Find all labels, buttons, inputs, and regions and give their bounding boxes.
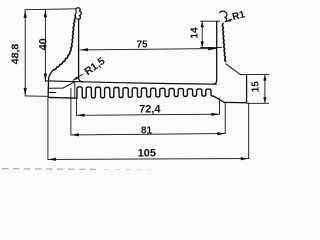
right wall top curl [220,11,227,21]
left wall foot outer curve [48,70,53,93]
dim 48,8 top arrow [24,10,27,18]
dim 105 right arrow [241,157,249,160]
dim 81 left arrow [71,133,79,136]
dim 14 top extension line [201,20,217,22]
dim 72,4 left extension line [76,98,78,115]
dim 105 left arrow [48,158,56,161]
dim 14 top arrow [201,21,204,27]
dim 48,8 line [24,10,26,96]
left wall upper outer face [74,9,77,16]
radius R1 leader arrow [226,19,232,22]
svg-text:48,8: 48,8 [9,44,21,65]
dim 72,4 right arrow [212,113,220,116]
radius R1 leader [226,20,232,22]
dim 75 line [80,49,216,50]
dim 15 bottom extension line [247,102,269,104]
base top surface line [45,81,216,84]
dim 81 right arrow [217,132,225,135]
svg-text:14: 14 [190,27,201,39]
right ledge tip edge [246,75,248,103]
base left step inner vertical [74,82,76,97]
dim 48,8 top extension line [25,8,75,11]
dim 105 line [48,158,249,161]
left wall inner face [79,19,83,82]
radius R1,5 leader arrow [73,77,78,81]
right wall outer serrated edge [222,24,225,62]
base left tip step diagonal [63,82,75,88]
radius R1,5 leader [73,74,82,80]
svg-text:15: 15 [251,81,262,93]
dim 15 line [264,75,266,104]
dim 14 line [201,21,203,47]
dim 81 right extension line [224,103,226,133]
dim 14 bottom arrow [201,41,204,47]
svg-text:81: 81 [141,126,153,137]
dim 72,4 left arrow [77,114,85,117]
dim 48,8 bottom arrow [24,88,27,96]
dim 81 left extension line [70,89,72,135]
base bottom edge with fin grooves [48,87,213,98]
svg-text:40: 40 [38,38,50,50]
dim 15 top extension line [247,74,269,76]
dim 15 bottom arrow [263,97,266,103]
left wall top curl [76,8,81,19]
base left tip upper step line [48,87,63,89]
base left tip lower step line [48,92,56,94]
dim 40 line [44,9,46,81]
left wall outer serrated edge [54,16,76,70]
dim 72,4 line [77,114,220,115]
dim 15 top arrow [263,75,266,81]
svg-text:105: 105 [138,148,156,160]
dim 75 left arrow [80,48,88,51]
svg-text:72,4: 72,4 [139,104,161,116]
dim 75 right arrow [208,47,216,50]
svg-text:R1,5: R1,5 [82,55,107,78]
dim 72,4 right extension line [219,98,221,114]
svg-text:75: 75 [136,40,148,51]
scan artifact bottom dashed line [2,168,96,171]
dim 40 bottom arrow [44,74,47,82]
dim 105 left extension line [47,98,49,160]
right wall inner face [213,21,217,84]
dim 40 top arrow [44,9,47,17]
svg-text:R1: R1 [231,9,246,23]
dim 81 line [71,134,225,135]
right ledge bottom edge [224,101,246,103]
dim 14 bottom extension line [201,46,222,48]
right bottom chamfer [214,96,225,102]
right wall outer slope to ledge [226,64,240,75]
right ledge top edge [240,74,246,76]
base left tip edge [47,92,49,97]
right wall inner top edge [217,20,220,22]
dim 48,8 bottom extension line [25,95,48,97]
left wall inner top edge [77,18,79,20]
dim 105 right extension line [248,103,250,158]
